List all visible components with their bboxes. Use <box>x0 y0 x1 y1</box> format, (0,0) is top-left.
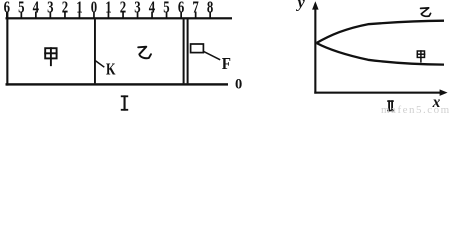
svg-text:y: y <box>296 0 306 12</box>
svg-text:0: 0 <box>235 77 242 93</box>
svg-text:mafen5.com: mafen5.com <box>381 104 449 115</box>
svg-text:K: K <box>106 60 116 79</box>
svg-text:F: F <box>222 54 231 73</box>
